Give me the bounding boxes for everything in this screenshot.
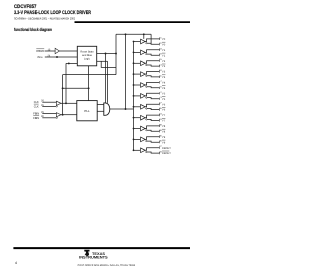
svg-text:Y2: Y2 [162,60,166,63]
svg-text:POST OFFICE BOX 655303 • DALLA: POST OFFICE BOX 655303 • DALLAS, TEXAS 7… [78,264,136,267]
wire inverter out to reset logic box [59,50,77,52]
svg-text:SCAS684A – DECEMBER 2001 – REV: SCAS684A – DECEMBER 2001 – REVISED MARCH… [14,17,75,21]
wire: select line B down to mux [107,61,109,103]
output driver row Y1 [133,47,166,57]
svg-text:Y8: Y8 [162,125,166,128]
svg-text:Y1: Y1 [162,54,166,57]
output driver row FBOUT [133,145,172,155]
svg-text:Y6: Y6 [162,103,166,106]
svg-text:Y0: Y0 [162,43,166,46]
output driver row Y8 [133,123,166,133]
svg-text:PLL: PLL [84,109,90,113]
wire: top rail [116,33,151,35]
output driver row Y6 [133,102,166,112]
wire: left vertical v1 [62,75,64,115]
mux U7 [104,103,110,115]
node out1/right rail [115,53,117,55]
svg-text:CLK: CLK [34,104,39,108]
differential feedback buffer U5 [56,113,61,117]
block U3: Reset State and Bias Logic [77,46,96,66]
svg-text:FBOUT: FBOUT [162,152,171,155]
node bypass tap [65,102,67,104]
svg-text:4: 4 [15,261,17,265]
output driver row Y9 [133,134,166,144]
svg-text:Y4: Y4 [162,82,166,85]
wire: box bottom pin down to PLL [88,66,90,101]
footer rule [13,247,190,249]
output driver row Y0 [133,36,166,46]
wire: select line A down to mux [105,54,107,103]
svg-text:3.3-V PHASE-LOCK LOOP CLOCK DR: 3.3-V PHASE-LOCK LOOP CLOCK DRIVER [14,10,91,16]
svg-text:Logic: Logic [84,57,91,60]
svg-text:Y7: Y7 [162,114,166,117]
wire: box out2 [97,60,108,62]
wire: mid vertical rail [125,34,127,109]
node: AVDD branch [56,56,58,58]
wire: FBIN buffer out to PLL [61,114,77,116]
svg-text:FBIN: FBIN [33,116,39,120]
node v1 joins FBIN line [62,114,64,116]
TI logo [79,250,108,260]
node on lower box input [68,62,70,64]
svg-text:Y3: Y3 [162,76,166,79]
svg-text:Y1: Y1 [162,49,166,52]
node on out1 [105,53,107,55]
output driver row Y2 [133,58,166,68]
node tap left [62,87,64,89]
header thick rule [75,21,191,23]
output driver row Y4 [133,80,166,90]
node tap right [88,87,90,89]
wire: clock bus V2 [133,42,135,151]
wire: h tap at 88.3 [63,87,89,89]
svg-text:Y9: Y9 [162,141,166,144]
wire: out2 branch down and right [101,61,116,67]
svg-text:functional block diagram: functional block diagram [14,27,52,32]
block U6: PLL [77,101,97,121]
svg-text:Y4: Y4 [162,87,166,90]
inverter U2 [55,48,59,53]
svg-text:FBOUT: FBOUT [162,147,171,150]
wire: row0 feed Y [143,34,145,39]
svg-text:Y5: Y5 [162,98,166,101]
wire: PLL out 2 to mux [97,110,104,112]
svg-text:INSTRUMENTS: INSTRUMENTS [79,256,108,260]
svg-text:Y8: Y8 [162,130,166,133]
output driver row Y7 [133,113,166,123]
wire: v2 bypass [65,63,67,103]
wire: box out1 to right rail [97,53,116,55]
svg-text:PWRDWN: PWRDWN [36,49,44,53]
wire AVDD to reset logic box [45,56,78,58]
svg-text:Y3: Y3 [162,71,166,74]
wire: mux out to clock bus [110,108,134,110]
wire PWRDWN to inverter U2 [45,50,55,52]
output driver row Y5 [133,91,166,101]
wire: row0 feed Yb [150,34,152,44]
wire: rail B across [63,74,116,76]
svg-text:Y7: Y7 [162,120,166,123]
svg-text:Y0: Y0 [162,38,166,41]
node mux-out / mid rail [125,108,127,110]
node top rail / row0 feed [143,33,145,35]
svg-text:CDCVF857: CDCVF857 [14,4,37,10]
wire: right vertical rail V1 [115,34,117,74]
wire: lower box input [66,62,77,64]
wire: CLK buffer out to PLL [61,102,77,104]
differential input buffer U4 [56,101,61,105]
svg-text:Y6: Y6 [162,109,166,112]
svg-text:Y9: Y9 [162,136,166,139]
svg-text:Y2: Y2 [162,65,166,68]
node top rail / mid rail [125,33,127,35]
svg-text:Y5: Y5 [162,92,166,95]
output driver row Y3 [133,69,166,79]
wire: PLL out to mux [97,104,104,106]
